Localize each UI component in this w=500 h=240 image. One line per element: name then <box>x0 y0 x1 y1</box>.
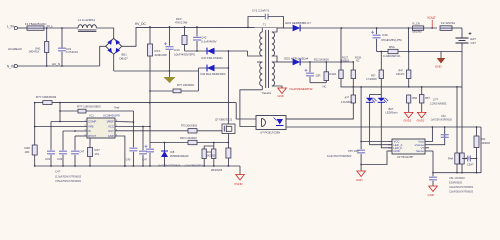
junction HV CY1 <box>247 27 249 29</box>
junction comp x60 <box>59 121 61 123</box>
port glyph L_IN <box>14 27 17 30</box>
U5 stub left VCC <box>388 141 392 143</box>
junction c5a1 <box>476 158 478 160</box>
diode GD2 <box>293 59 301 66</box>
junction fb vcc cross <box>149 102 151 104</box>
U5 stub right V? <box>425 147 429 149</box>
wire nc tie <box>310 82 326 84</box>
wire r40 b <box>197 142 228 144</box>
wire vcc cap down <box>149 153 151 166</box>
junction rail 34.7 <box>34 165 36 167</box>
wire preload top <box>408 28 410 52</box>
svg-text:(1.5uF/50V/3P-2: (1.5uF/50V/3P-2 <box>185 165 204 168</box>
resistor R4A <box>455 153 459 164</box>
wire u5 pin4 link <box>429 150 433 152</box>
svg-text:R12A: R12A <box>330 72 337 76</box>
wire r2a top <box>352 62 354 70</box>
svg-text:B2?: B2? <box>389 107 394 111</box>
svg-text:C44: C44 <box>174 48 180 52</box>
svg-text:10uF/450V/3P5: 10uF/450V/3P5 <box>174 53 195 57</box>
junction return led <box>380 51 382 53</box>
svg-text:C5A: C5A <box>441 115 446 118</box>
wire sec out top <box>277 27 293 29</box>
resistor R5X <box>407 70 411 79</box>
wire r127 top <box>340 62 342 70</box>
capacitor C vsense <box>441 135 449 138</box>
wire r44 top <box>204 143 214 150</box>
wire c5 gnd stub <box>360 165 362 172</box>
svg-text:1KL: 1KL <box>95 152 100 156</box>
wire sec out low b <box>300 61 353 63</box>
wire vert 35 <box>34 103 36 166</box>
wire r127 to band <box>341 79 462 87</box>
junction AC_L b <box>61 27 63 29</box>
svg-text:C5A?: C5A? <box>467 163 474 167</box>
wire secondary bottom pin <box>272 86 282 88</box>
junction clamp drain <box>228 50 230 52</box>
junction rail 150 <box>149 165 151 167</box>
svg-text:R5?: R5? <box>425 96 430 100</box>
svg-text:10/0603: 10/0603 <box>481 141 491 145</box>
wire vcc cap up <box>149 143 151 149</box>
wire RV1 bottom <box>46 53 48 67</box>
svg-text:47K/1.0W: 47K/1.0W <box>175 20 188 24</box>
svg-text:YOUT: YOUT <box>427 16 436 20</box>
fuse F1 <box>27 26 44 30</box>
svg-text:UC3843/GP8: UC3843/GP8 <box>103 114 120 118</box>
zener diode IC8 <box>161 151 168 157</box>
wire to battery <box>452 27 462 29</box>
diode D41 <box>207 65 215 72</box>
svg-text:1K/0603: 1K/0603 <box>340 60 350 63</box>
wire led1 to U5 <box>370 102 392 144</box>
wire c5a1 b <box>470 158 476 160</box>
resistor R44 <box>202 149 206 159</box>
wire C44 bottom <box>169 50 171 71</box>
svg-text:L_IN: L_IN <box>7 25 14 29</box>
ground GND1 <box>404 112 413 118</box>
junction rail 164.5 <box>164 165 166 167</box>
resistor R5A <box>388 49 398 53</box>
junction return r5x <box>408 51 410 53</box>
svg-text:PGND: PGND <box>235 182 243 186</box>
resistor R opto <box>351 95 355 103</box>
svg-text:C??: C?? <box>433 98 439 102</box>
junction rail 228.4 <box>228 165 230 167</box>
junction HV R1P <box>184 26 186 28</box>
wire r4a down <box>456 164 458 173</box>
junction rail 75 <box>74 165 76 167</box>
svg-text:C5? 10R: C5? 10R <box>348 149 359 153</box>
wire c4a down <box>132 152 134 166</box>
resistor R44B <box>212 149 216 159</box>
wire vout up <box>429 127 432 142</box>
svg-text:C40: C40 <box>382 33 388 37</box>
wire IS <box>63 130 87 132</box>
wire VREF pin <box>115 121 133 124</box>
resistor R 100K <box>43 101 52 105</box>
capacitor C4A <box>129 148 137 151</box>
wire r40 a <box>150 142 188 144</box>
wire out rail <box>300 27 437 29</box>
junction vcc wire <box>149 126 151 128</box>
wire vcc100 b <box>181 90 199 92</box>
svg-text:GND: GND <box>278 94 284 98</box>
svg-text:3.74/0603: 3.74/0603 <box>366 78 377 81</box>
junction band u5 <box>360 86 362 88</box>
wire gnd pin <box>115 136 125 166</box>
svg-text:Transfor: Transfor <box>262 91 272 95</box>
svg-text:R12 1K/0603: R12 1K/0603 <box>314 59 329 62</box>
wire r4a vert <box>456 87 458 153</box>
LED LED1 <box>366 98 377 103</box>
junction N a <box>46 65 48 67</box>
wire choke to bridge <box>96 28 113 38</box>
svg-text:10K: 10K <box>25 150 30 154</box>
wire c4c vert <box>74 136 76 150</box>
junction Cbulk minus <box>169 70 171 72</box>
wire C42 bottom <box>196 41 198 51</box>
svg-text:GND2: GND2 <box>417 119 425 123</box>
wire HV DC rail <box>136 26 284 28</box>
junction rail 51 <box>50 165 52 167</box>
svg-text:GND: GND <box>435 65 443 69</box>
svg-text:1uF/25V/X5R/0603: 1uF/25V/X5R/0603 <box>431 119 453 122</box>
capacitor C5A1 <box>468 156 471 162</box>
svg-text:R3?: R3? <box>371 74 376 77</box>
battery BT1 <box>456 32 472 43</box>
resistor R3 led <box>379 70 383 79</box>
wire r44b top <box>213 146 215 149</box>
junction r100k b <box>59 102 61 104</box>
transformer secondary winding 1 <box>272 32 275 56</box>
wire c5a1 a <box>462 158 468 160</box>
svg-text:A??: A?? <box>345 95 350 99</box>
svg-text:470uF/25V(-P5): 470uF/25V(-P5) <box>381 38 402 42</box>
wire RV1 top <box>46 28 48 42</box>
junction r100k <box>34 102 36 104</box>
wire OUT <box>115 130 188 132</box>
wire fb long b <box>52 102 236 104</box>
svg-text:HV_DC: HV_DC <box>135 22 147 26</box>
wire r51 top <box>421 87 423 95</box>
ground secondary <box>278 88 287 94</box>
svg-text:R?? 1.8K/1K/0603: R?? 1.8K/1K/0603 <box>77 105 101 109</box>
wire u5 gnd <box>361 151 392 165</box>
optocoupler U3 LED <box>262 119 266 127</box>
IC U1 body <box>87 118 115 138</box>
wire r5x top <box>408 52 410 71</box>
junction rail 204.2 <box>203 165 205 167</box>
transformer aux winding <box>260 62 263 86</box>
wire c4b vert <box>142 127 144 151</box>
inductor L1 <box>78 25 96 28</box>
svg-text:R44: R44 <box>207 151 212 154</box>
junction drain aux <box>228 67 230 69</box>
wire c4c down <box>74 155 76 166</box>
wire clamp <box>185 50 248 52</box>
junction AC_L a <box>46 27 48 29</box>
svg-text:IC8: IC8 <box>170 150 175 154</box>
junction low r51 <box>421 86 423 88</box>
wire r50 stub <box>408 103 410 112</box>
svg-text:475uF/50V/X7R/0603: 475uF/50V/X7R/0603 <box>55 179 81 183</box>
wire r61 down <box>476 148 478 173</box>
wire zener top <box>164 143 166 151</box>
wire aux left <box>198 68 200 91</box>
wire r4b down <box>461 164 463 173</box>
svg-text:C0uF/50V/X7R/0603: C0uF/50V/X7R/0603 <box>449 190 473 194</box>
svg-text:F1 T8AH251VAC: F1 T8AH251VAC <box>25 22 46 26</box>
svg-text:C0uF/50V/X7R/0603: C0uF/50V/X7R/0603 <box>449 185 473 189</box>
wire drain <box>227 51 229 124</box>
resistor R 1.8K <box>78 109 86 113</box>
resistor R51 <box>420 95 424 104</box>
capacitor C10 <box>305 69 315 76</box>
diode R17 <box>207 48 215 55</box>
svg-text:AC_L: AC_L <box>47 24 54 28</box>
wire yout stub <box>431 20 433 28</box>
capacitor C31 <box>47 151 55 154</box>
capacitor C4B <box>139 151 147 154</box>
svg-text:10K/0603: 10K/0603 <box>206 156 217 158</box>
bridge diode bottom-right <box>116 48 121 54</box>
junction fb vsense <box>444 126 446 128</box>
wire vref a <box>60 110 78 112</box>
junction is x75 <box>74 130 76 132</box>
svg-text:Vref: Vref <box>114 106 120 110</box>
svg-text:0.47uF/X2: 0.47uF/X2 <box>66 50 79 54</box>
junction source sense <box>228 142 230 144</box>
junction vcc c4b <box>142 126 144 128</box>
svg-text:LED/5mm: LED/5mm <box>386 111 399 115</box>
wire r24 to opto <box>286 103 353 119</box>
optocoupler U3 body <box>256 116 286 130</box>
port glyph N_IN <box>14 65 17 68</box>
wire u5 feed <box>360 87 362 142</box>
wire r12a top <box>325 62 327 72</box>
capacitor C4C <box>71 151 79 154</box>
U5 stub right Vout <box>425 141 429 143</box>
svg-text:D41 BA1.59/FR300C: D41 BA1.59/FR300C <box>201 72 226 76</box>
wire c433 top <box>432 151 434 176</box>
svg-text:GND: GND <box>356 178 362 182</box>
wire VCC <box>115 126 150 128</box>
svg-text:R5A: R5A <box>389 45 395 49</box>
svg-text:R_CN: R_CN <box>413 21 420 25</box>
wire L in <box>17 27 27 29</box>
junction rail 124.9 <box>124 165 126 167</box>
capacitor CY1 <box>265 14 268 20</box>
svg-text:F2 12V/2A: F2 12V/2A <box>441 21 455 25</box>
wire opto e <box>240 90 262 127</box>
svg-text:10uF/35V/X5R/0603: 10uF/35V/X5R/0603 <box>327 154 352 158</box>
svg-text:0.22R/2W/1%: 0.22R/2W/1% <box>383 54 401 58</box>
wire aux top pin <box>257 61 262 63</box>
wire led bracket <box>370 94 382 96</box>
junction rail 143 <box>142 165 144 167</box>
capacitor C32 <box>59 151 67 154</box>
resistor R4B <box>460 153 464 164</box>
wire pgnd stub <box>239 166 241 175</box>
svg-text:2.4K/0603: 2.4K/0603 <box>341 101 353 104</box>
varistor RV1 <box>45 42 49 53</box>
wire C42 top <box>196 27 198 36</box>
svg-text:R7? 100/0603: R7? 100/0603 <box>177 83 194 87</box>
junction y62 r127 <box>352 61 354 63</box>
svg-text:GD3 HER8X/BD-C7: GD3 HER8X/BD-C7 <box>285 21 311 25</box>
svg-text:RT/CT: RT/CT <box>88 134 96 138</box>
ground U5 <box>357 171 366 177</box>
wire led2 to U5 <box>381 102 392 148</box>
IC U5 body <box>392 139 425 154</box>
wire sense down <box>227 158 229 166</box>
capacitor CX1 <box>58 48 66 51</box>
wire vcc100 a <box>150 90 173 92</box>
svg-text:C4?: C4? <box>55 170 61 174</box>
wire c31 vert <box>50 122 52 151</box>
svg-text:U1? B1117/B?: U1? B1117/B? <box>397 155 414 159</box>
junction rail 90 <box>89 165 91 167</box>
wire c31 down <box>50 155 52 166</box>
wire N to bridge <box>100 46 106 66</box>
svg-text:E10R/0603: E10R/0603 <box>449 181 463 185</box>
svg-text:R17 FR1.07/3041: R17 FR1.07/3041 <box>202 56 224 60</box>
diode GD3 <box>293 25 301 32</box>
svg-text:(1uF/50V/X7R/0603: (1uF/50V/X7R/0603 <box>158 165 181 168</box>
resistor R48 <box>32 145 37 155</box>
svg-text:VREF: VREF <box>107 120 115 124</box>
svg-text:0.1uF/400V: 0.1uF/400V <box>201 40 217 44</box>
wire u5 vcc <box>361 141 388 143</box>
wire opto c <box>236 103 256 119</box>
svg-text:DB107: DB107 <box>120 57 129 61</box>
svg-text:R?? 100K/0603: R?? 100K/0603 <box>36 95 56 99</box>
svg-text:CY1 2.2nF/Y1: CY1 2.2nF/Y1 <box>252 9 270 13</box>
capacitor C433 <box>429 177 437 180</box>
svg-text:C2?: C2? <box>471 41 477 45</box>
wire led riser bot <box>380 79 382 95</box>
svg-text:SB1060: SB1060 <box>412 29 422 33</box>
ground GND2 <box>417 112 426 118</box>
wire led1 top <box>369 95 371 98</box>
resistor R40 <box>188 140 197 144</box>
wire zener bot <box>164 157 166 166</box>
junction rail 213.8 <box>213 165 215 167</box>
svg-text:U? PC817/CBN: U? PC817/CBN <box>260 131 280 135</box>
U5 stub left LED_A <box>388 144 392 146</box>
wire r5x bot <box>408 79 410 87</box>
ground PGND <box>236 175 245 181</box>
wire VFB <box>35 126 87 128</box>
wire battery down <box>461 43 463 87</box>
svg-text:R40 1.0K/0603: R40 1.0K/0603 <box>180 137 197 140</box>
wire R1P top <box>184 27 186 36</box>
wire gate <box>197 130 222 132</box>
wire fb rail <box>286 126 481 128</box>
optocoupler U3 transistor <box>274 118 284 126</box>
wire c32 vert <box>62 131 64 150</box>
junction N b <box>61 65 63 67</box>
wire bridge plus <box>122 27 136 46</box>
wire vref b <box>86 110 133 112</box>
svg-text:AC_N: AC_N <box>52 62 60 66</box>
wire bridge minus <box>113 54 115 71</box>
svg-text:C40: C40 <box>126 158 131 161</box>
wire c10 bot <box>309 77 311 83</box>
wire aux diode <box>199 67 229 69</box>
svg-text:Q? X990/T0-22: Q? X990/T0-22 <box>215 119 233 122</box>
junction low r50 <box>408 86 410 88</box>
capacitor C5 <box>357 150 365 153</box>
LED LED2 <box>378 98 389 103</box>
wire led riser top <box>380 52 382 71</box>
capacitor C40 <box>371 31 381 38</box>
bridge rectifier BD1 frame <box>106 38 122 54</box>
wire source <box>227 134 229 149</box>
wire c4a vert <box>132 111 134 147</box>
wire d2 join vertical <box>340 28 342 62</box>
wire right edge <box>480 127 482 173</box>
svg-text:OUT: OUT <box>108 129 114 133</box>
wire CY1 right <box>268 17 284 28</box>
wire r44 down <box>203 159 205 167</box>
junction rail 63 <box>62 165 64 167</box>
wire C44 top <box>169 27 171 46</box>
wire c10 top <box>309 62 311 72</box>
junction sgnd r4b <box>461 172 463 174</box>
bridge diode top-left <box>107 39 112 45</box>
resistor R12A <box>324 72 329 81</box>
junction r4a band <box>456 86 458 88</box>
svg-text:(1.5uF/50V/X7R/0603: (1.5uF/50V/X7R/0603 <box>55 175 82 179</box>
junction fb r61 <box>476 126 478 128</box>
wire c40 bot <box>376 39 378 52</box>
svg-text:R75 20K/0603: R75 20K/0603 <box>181 124 198 127</box>
junction fb vout <box>432 126 434 128</box>
svg-text:220K/2W: 220K/2W <box>155 53 168 57</box>
junction r40 r44 <box>213 142 215 144</box>
capacitor C42 <box>193 37 201 40</box>
wire c433 bot <box>432 181 434 186</box>
resistor R sense <box>226 148 231 158</box>
svg-text:GD2 HER.0e/3Dx4: GD2 HER.0e/3Dx4 <box>284 57 309 61</box>
svg-text:ZMM/DIODE/40: ZMM/DIODE/40 <box>170 154 189 158</box>
wire COMP <box>51 121 87 123</box>
wire secondary mid pin2 <box>272 61 277 63</box>
svg-text:14D471K: 14D471K <box>29 49 40 53</box>
wire vref vert <box>59 103 61 122</box>
svg-text:Sense: Sense <box>416 149 424 153</box>
wire earth stub <box>169 71 171 77</box>
junction vref pin <box>133 121 135 123</box>
svg-text:NC: NC <box>323 85 327 89</box>
wire r4 down <box>89 157 91 167</box>
svg-text:GND: GND <box>108 134 114 138</box>
transistor Q1 <box>222 124 235 134</box>
svg-text:NC: NC <box>356 60 360 63</box>
wire CX1 bottom <box>61 52 63 66</box>
bridge diode top-right <box>116 39 121 45</box>
svg-text:GND: GND <box>394 149 400 153</box>
svg-text:VCC: VCC <box>108 125 114 129</box>
transformer secondary winding 2 <box>272 62 275 86</box>
wire DC minus rail <box>114 70 199 72</box>
wire c4b down <box>142 155 144 166</box>
wire led2 top <box>380 95 382 98</box>
junction y62 join <box>340 61 342 63</box>
wire pgnd rail <box>35 165 240 167</box>
